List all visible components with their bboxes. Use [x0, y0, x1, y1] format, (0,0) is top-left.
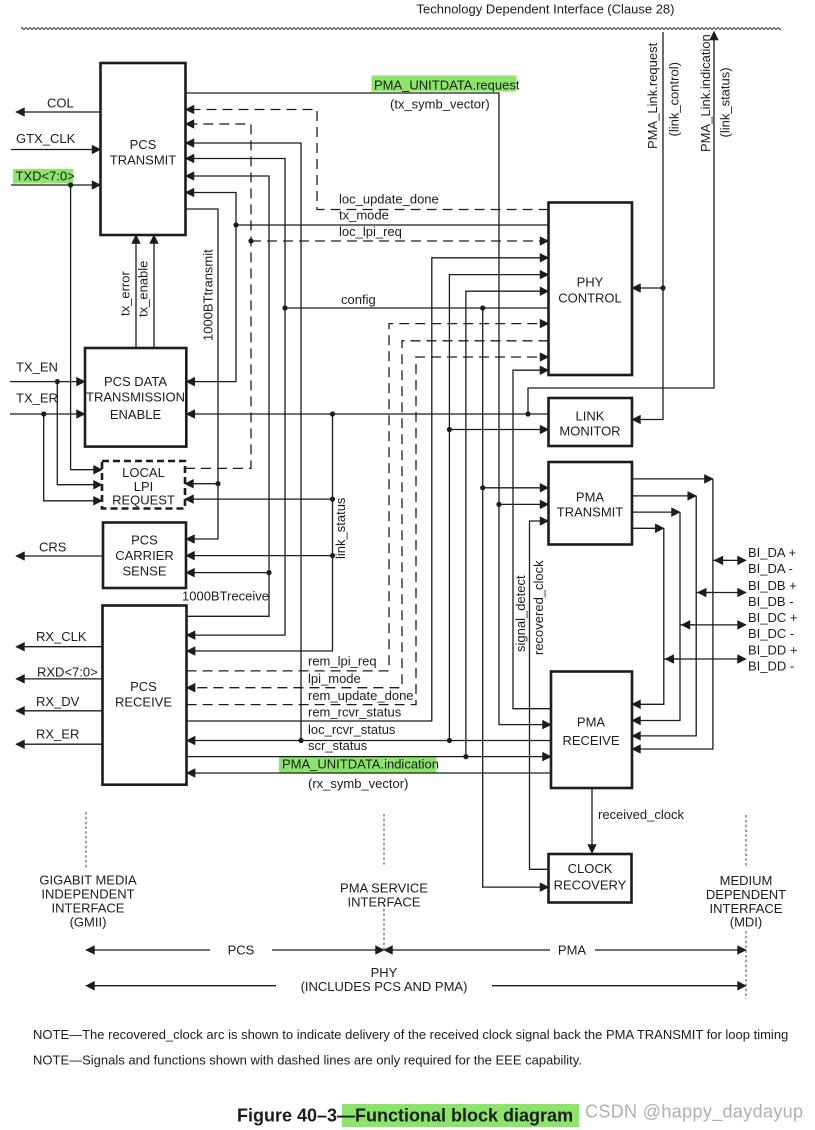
- svg-text:rem_lpi_req: rem_lpi_req: [308, 654, 377, 669]
- svg-text:GIGABIT MEDIA: GIGABIT MEDIA: [39, 873, 137, 888]
- svg-text:BI_DB +: BI_DB +: [748, 578, 797, 593]
- svg-text:tx_error: tx_error: [118, 271, 133, 316]
- svg-text:PHY: PHY: [371, 965, 398, 980]
- svg-text:rem_rcvr_status: rem_rcvr_status: [308, 705, 402, 720]
- svg-text:PMA: PMA: [577, 715, 606, 730]
- svg-text:RXD<7:0>: RXD<7:0>: [37, 665, 98, 680]
- svg-text:BI_DC +: BI_DC +: [748, 610, 798, 625]
- svg-text:CSDN @happy_daydayup: CSDN @happy_daydayup: [585, 1102, 803, 1123]
- svg-text:link_status: link_status: [333, 497, 348, 559]
- svg-text:LOCAL: LOCAL: [122, 465, 165, 480]
- svg-text:CARRIER: CARRIER: [115, 548, 174, 563]
- svg-text:PMA_Link.request: PMA_Link.request: [645, 42, 660, 149]
- svg-text:RECEIVE: RECEIVE: [562, 733, 619, 748]
- svg-text:CLOCK: CLOCK: [568, 861, 613, 876]
- svg-text:(MDI): (MDI): [730, 915, 763, 930]
- svg-text:ENABLE: ENABLE: [110, 407, 162, 422]
- svg-text:PCS: PCS: [130, 137, 157, 152]
- svg-text:rem_update_done: rem_update_done: [308, 688, 414, 703]
- svg-text:TRANSMIT: TRANSMIT: [110, 153, 177, 168]
- svg-text:RX_CLK: RX_CLK: [36, 629, 87, 644]
- svg-text:PCS: PCS: [130, 679, 157, 694]
- svg-text:1000BTreceive: 1000BTreceive: [182, 589, 269, 604]
- svg-text:RX_DV: RX_DV: [36, 694, 80, 709]
- svg-text:TRANSMISSION: TRANSMISSION: [86, 390, 185, 405]
- svg-text:BI_DB -: BI_DB -: [748, 594, 794, 609]
- svg-text:PCS: PCS: [131, 533, 158, 548]
- svg-text:recovered_clock: recovered_clock: [531, 560, 546, 655]
- svg-text:config: config: [341, 292, 376, 307]
- svg-text:PMA_UNITDATA.request: PMA_UNITDATA.request: [374, 78, 520, 93]
- svg-text:TX_ER: TX_ER: [16, 391, 58, 406]
- svg-text:BI_DA +: BI_DA +: [748, 545, 796, 560]
- svg-text:DEPENDENT: DEPENDENT: [706, 887, 786, 902]
- svg-text:loc_lpi_req: loc_lpi_req: [339, 224, 402, 239]
- svg-text:(tx_symb_vector): (tx_symb_vector): [390, 97, 490, 112]
- svg-text:RECOVERY: RECOVERY: [554, 878, 627, 893]
- svg-text:CONTROL: CONTROL: [558, 291, 622, 306]
- svg-text:PMA: PMA: [558, 943, 587, 958]
- svg-text:PMA_UNITDATA.indication: PMA_UNITDATA.indication: [282, 757, 439, 772]
- svg-text:INDEPENDENT: INDEPENDENT: [41, 887, 134, 902]
- svg-text:INTERFACE: INTERFACE: [52, 901, 125, 916]
- svg-text:scr_status: scr_status: [308, 738, 368, 753]
- svg-text:COL: COL: [47, 96, 74, 111]
- svg-text:received_clock: received_clock: [598, 807, 684, 822]
- svg-text:INTERFACE: INTERFACE: [348, 895, 421, 910]
- svg-text:tx_enable: tx_enable: [136, 261, 151, 317]
- svg-text:CRS: CRS: [39, 540, 67, 555]
- svg-text:MEDIUM: MEDIUM: [720, 873, 773, 888]
- svg-text:RECEIVE: RECEIVE: [115, 695, 172, 710]
- svg-text:BI_DD -: BI_DD -: [748, 659, 794, 674]
- svg-text:LINK: LINK: [576, 409, 605, 424]
- svg-text:PMA SERVICE: PMA SERVICE: [340, 881, 428, 896]
- svg-text:MONITOR: MONITOR: [559, 424, 620, 439]
- svg-text:1000BTtransmit: 1000BTtransmit: [201, 249, 216, 341]
- svg-text:signal_detect: signal_detect: [513, 575, 528, 652]
- svg-text:TXD<7:0>: TXD<7:0>: [16, 169, 75, 184]
- svg-text:GTX_CLK: GTX_CLK: [16, 131, 76, 146]
- svg-text:(rx_symb_vector): (rx_symb_vector): [308, 776, 408, 791]
- svg-text:NOTE—The recovered_clock arc i: NOTE—The recovered_clock arc is shown to…: [33, 1027, 788, 1042]
- svg-text:Figure 40–3—Functional block d: Figure 40–3—Functional block diagram: [237, 1106, 573, 1126]
- svg-text:PHY: PHY: [577, 275, 604, 290]
- svg-text:REQUEST: REQUEST: [112, 493, 175, 508]
- svg-text:PCS DATA: PCS DATA: [104, 374, 167, 389]
- svg-text:(INCLUDES PCS AND PMA): (INCLUDES PCS AND PMA): [301, 979, 468, 994]
- svg-text:NOTE—Signals and functions sho: NOTE—Signals and functions shown with da…: [33, 1053, 582, 1068]
- svg-text:TRANSMIT: TRANSMIT: [557, 505, 624, 520]
- svg-text:PCS: PCS: [228, 943, 255, 958]
- svg-text:(link_control): (link_control): [667, 62, 682, 136]
- svg-text:loc_update_done: loc_update_done: [339, 192, 439, 207]
- svg-text:PMA_Link.indication: PMA_Link.indication: [698, 34, 713, 152]
- svg-text:BI_DC -: BI_DC -: [748, 626, 794, 641]
- svg-text:(link_status): (link_status): [718, 67, 733, 137]
- svg-text:lpi_mode: lpi_mode: [308, 671, 361, 686]
- svg-text:loc_rcvr_status: loc_rcvr_status: [308, 722, 396, 737]
- svg-text:TX_EN: TX_EN: [16, 360, 58, 375]
- svg-text:(GMII): (GMII): [70, 915, 107, 930]
- svg-text:Technology Dependent Interface: Technology Dependent Interface (Clause 2…: [417, 2, 675, 17]
- svg-text:PMA: PMA: [576, 490, 605, 505]
- svg-text:tx_mode: tx_mode: [339, 208, 389, 223]
- svg-text:BI_DD +: BI_DD +: [748, 643, 798, 658]
- svg-text:BI_DA -: BI_DA -: [748, 561, 793, 576]
- svg-text:SENSE: SENSE: [122, 564, 166, 579]
- svg-text:RX_ER: RX_ER: [36, 727, 79, 742]
